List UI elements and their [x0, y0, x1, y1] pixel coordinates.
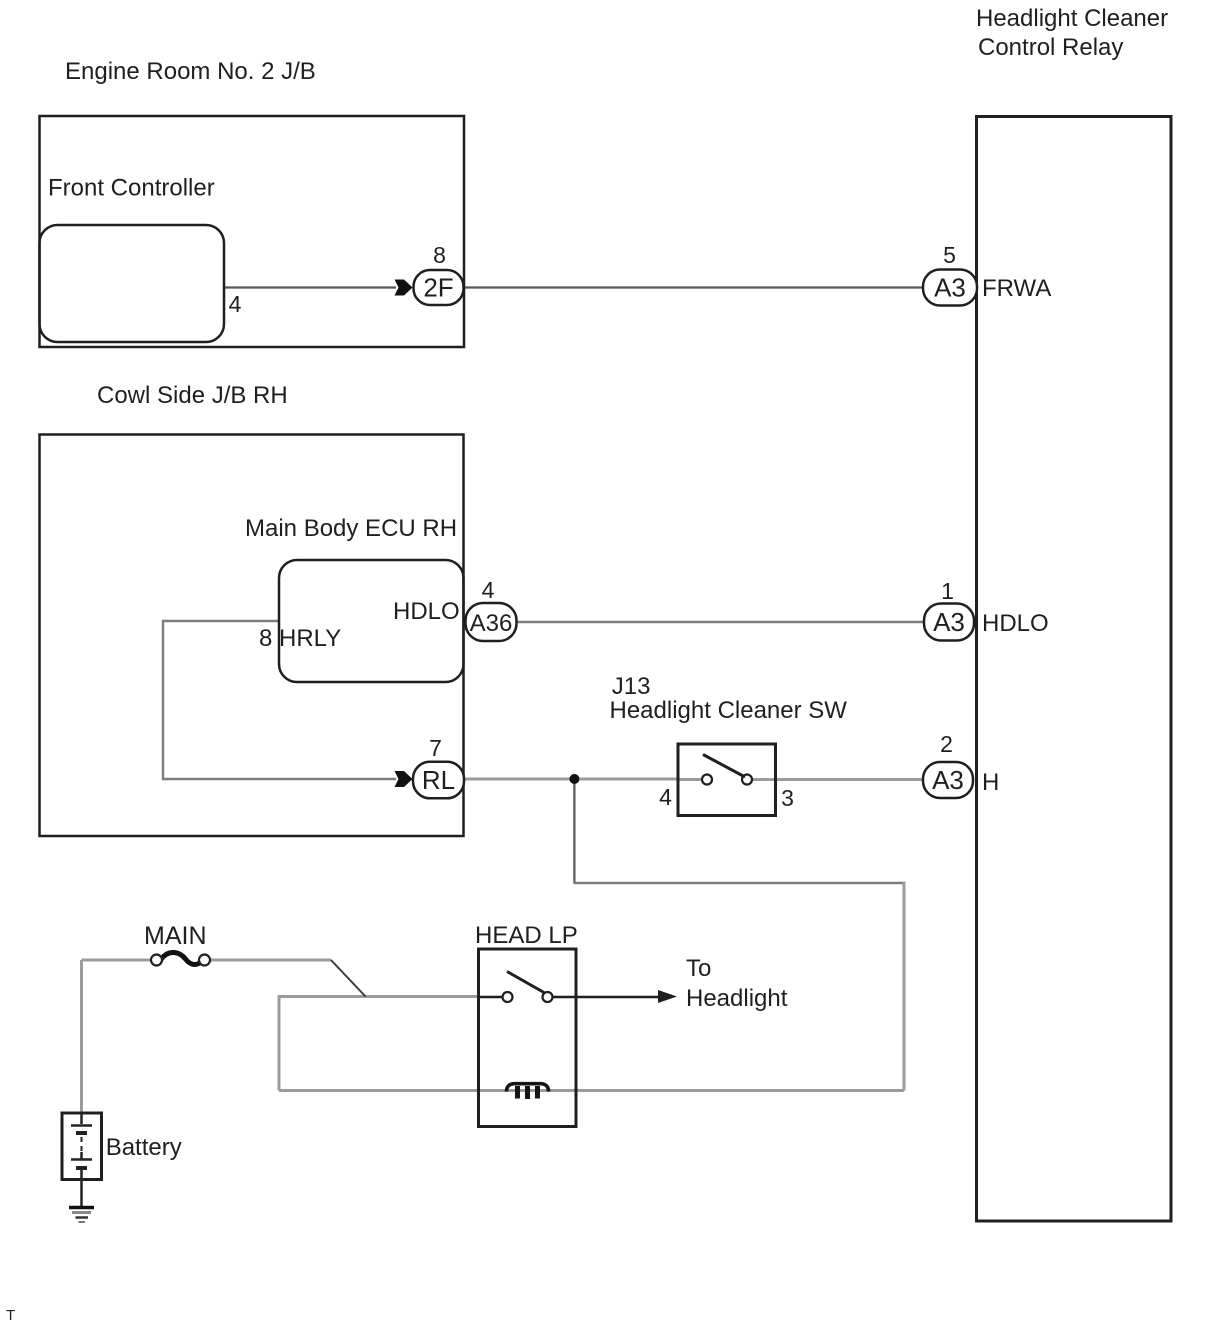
- svg-text:H: H: [982, 769, 999, 796]
- svg-text:A3: A3: [934, 273, 966, 303]
- svg-text:4: 4: [229, 291, 242, 317]
- svg-text:T: T: [6, 1307, 15, 1324]
- svg-text:MAIN: MAIN: [144, 922, 207, 950]
- svg-text:A3: A3: [932, 765, 964, 795]
- svg-text:HDLO: HDLO: [982, 610, 1049, 637]
- svg-text:Headlight Cleaner: Headlight Cleaner: [976, 5, 1168, 32]
- svg-text:To: To: [686, 955, 711, 982]
- svg-text:Battery: Battery: [106, 1134, 182, 1161]
- svg-text:Engine Room No. 2 J/B: Engine Room No. 2 J/B: [65, 58, 316, 85]
- svg-text:Headlight: Headlight: [686, 985, 788, 1012]
- svg-text:Control Relay: Control Relay: [978, 34, 1123, 61]
- svg-text:Front Controller: Front Controller: [48, 175, 215, 202]
- svg-text:1: 1: [941, 578, 954, 604]
- svg-text:5: 5: [943, 242, 956, 268]
- svg-text:Headlight Cleaner SW: Headlight Cleaner SW: [610, 697, 848, 724]
- svg-text:8: 8: [433, 242, 446, 268]
- svg-text:HEAD LP: HEAD LP: [475, 922, 578, 949]
- svg-text:Cowl Side J/B RH: Cowl Side J/B RH: [97, 382, 288, 409]
- svg-text:7: 7: [429, 735, 442, 761]
- svg-text:8 HRLY: 8 HRLY: [259, 625, 341, 652]
- svg-text:A3: A3: [933, 607, 965, 637]
- svg-text:Main Body ECU RH: Main Body ECU RH: [245, 515, 457, 542]
- svg-text:2F: 2F: [423, 273, 453, 303]
- svg-text:4: 4: [482, 577, 495, 603]
- svg-text:J13: J13: [612, 673, 651, 700]
- svg-text:3: 3: [781, 785, 794, 811]
- svg-text:2: 2: [940, 731, 953, 757]
- svg-text:FRWA: FRWA: [982, 275, 1051, 302]
- svg-text:RL: RL: [422, 765, 455, 795]
- svg-text:HDLO: HDLO: [393, 598, 460, 625]
- svg-text:4: 4: [659, 784, 672, 810]
- svg-text:A36: A36: [470, 610, 513, 637]
